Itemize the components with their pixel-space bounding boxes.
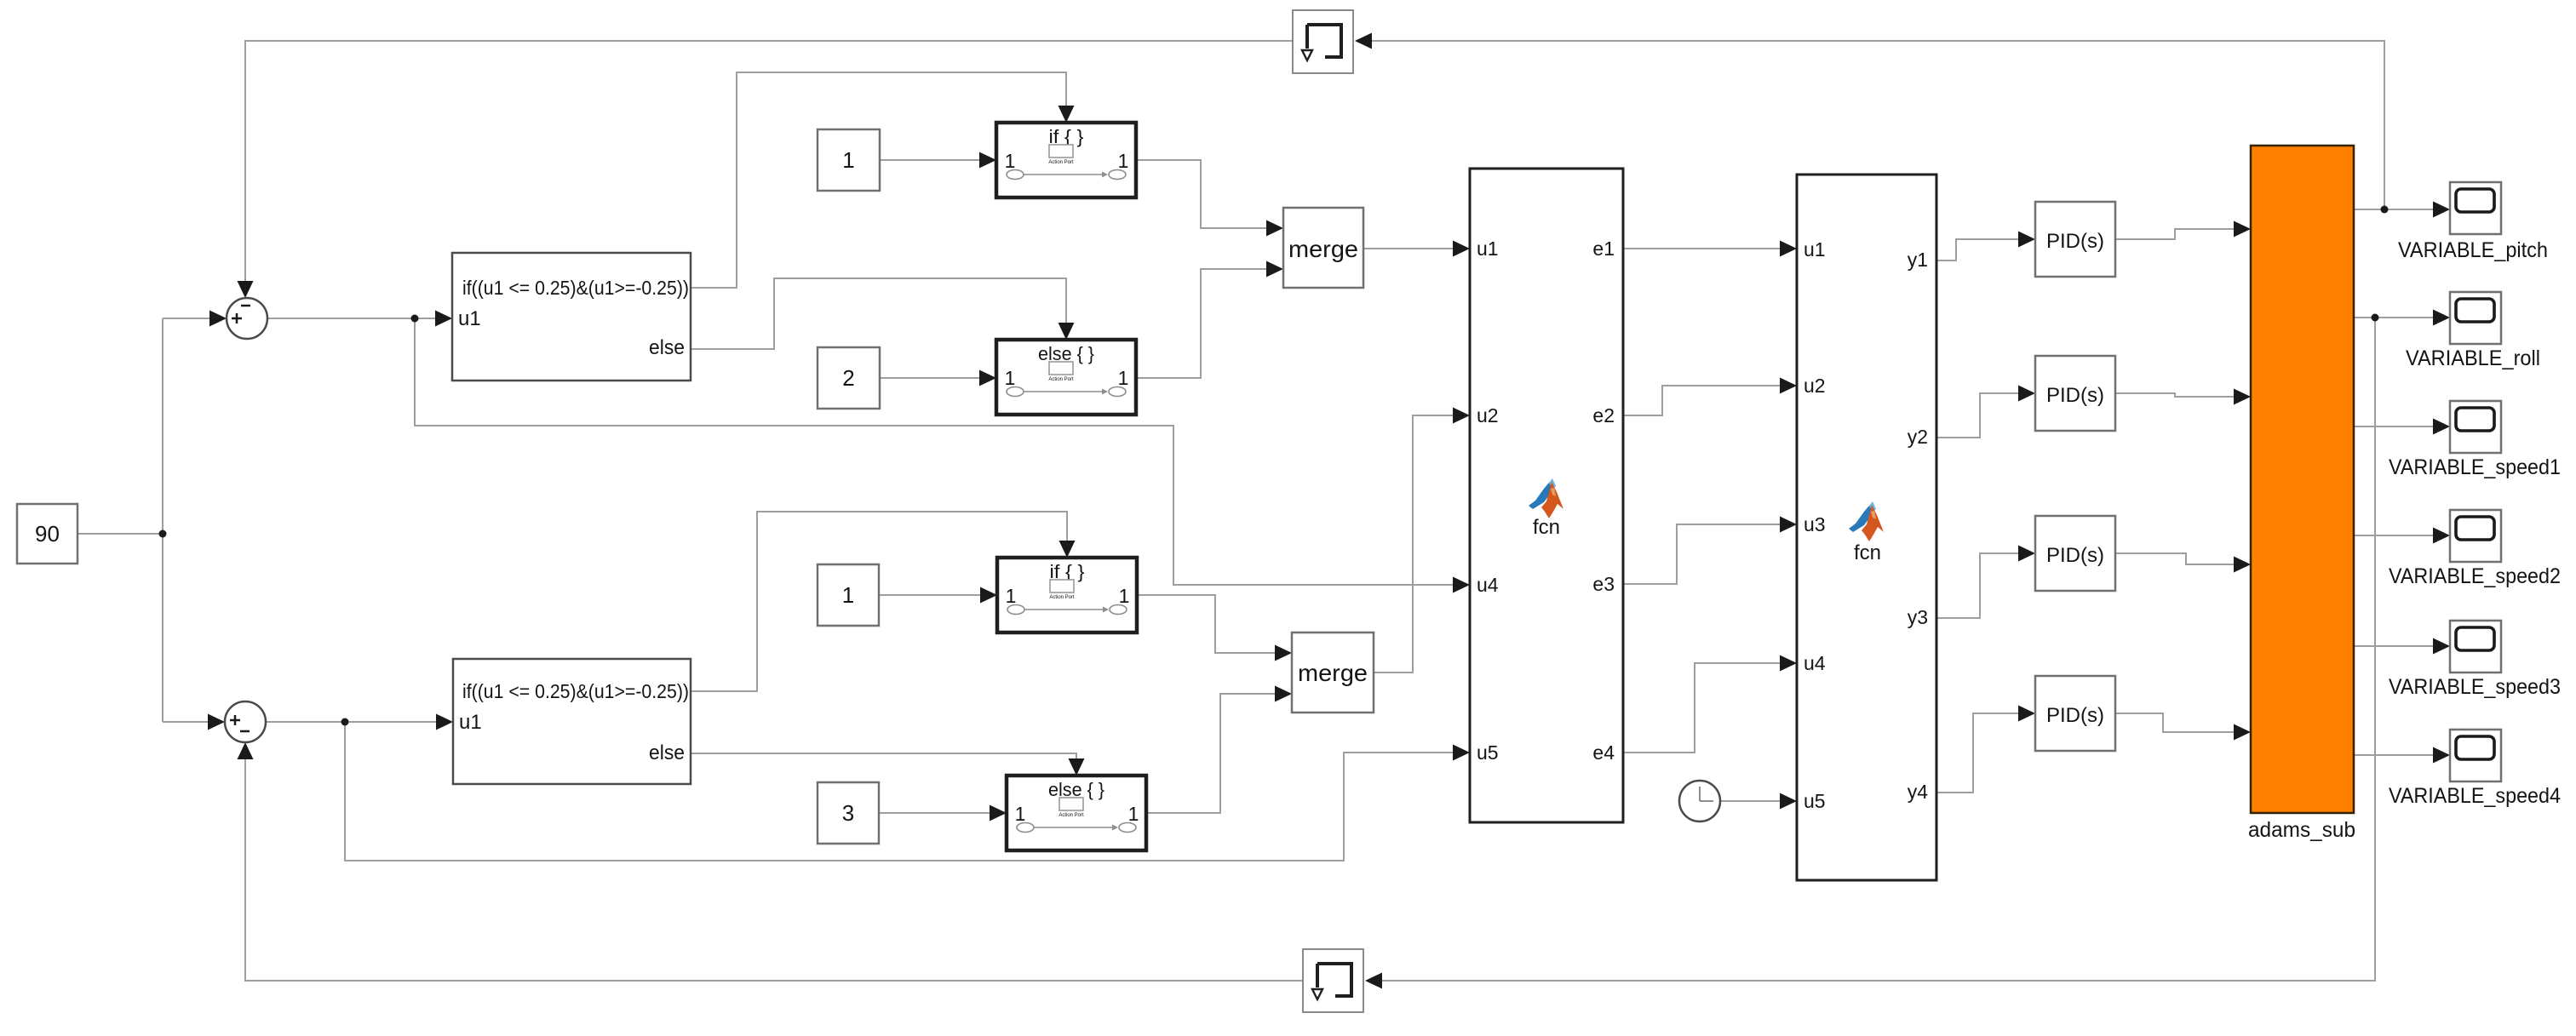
arrow into else{}2 input	[990, 805, 1007, 821]
wire if-block2 "if" output to action port of if{}2	[691, 512, 1067, 691]
arrow into scope VARIABLE_speed4	[2433, 747, 2450, 764]
arrow into if{}2 action port	[1059, 541, 1076, 558]
else{} action subsystem 2	[1007, 776, 1146, 850]
wire else{}1 output to merge1 input 2	[1136, 269, 1271, 378]
arrow into if-block1	[435, 311, 452, 327]
wire PID4 output to adams_sub input 4	[2115, 713, 2239, 732]
wire y1 of fcn2 to PID1	[1936, 239, 2023, 260]
svg-text:else: else	[649, 741, 685, 764]
arrow into fcn2 u3	[1780, 517, 1797, 533]
arrow into scope VARIABLE_speed3	[2433, 638, 2450, 655]
svg-text:u2: u2	[1804, 375, 1826, 397]
MATLAB logo of fcn2	[1849, 501, 1884, 541]
arrow into sum2 bottom	[238, 742, 254, 759]
svg-text:e1: e1	[1592, 238, 1615, 260]
wire e4 of fcn1 to u4 of fcn2	[1623, 663, 1785, 753]
wire adams_sub output 1 to scope VARIABLE_pitch	[2354, 209, 2438, 210]
scope VARIABLE_speed4	[2389, 730, 2561, 808]
svg-text:VARIABLE_speed3: VARIABLE_speed3	[2389, 675, 2561, 699]
merge block 1	[1283, 208, 1363, 288]
wire feedback from pitch junction up to memory1	[1372, 41, 2384, 209]
svg-text:VARIABLE_roll: VARIABLE_roll	[2406, 346, 2540, 370]
arrow into else{}1 input	[979, 370, 996, 386]
MATLAB function block 2 (fcn)	[1797, 175, 1936, 880]
arrow into merge2 input 2	[1275, 686, 1292, 702]
scope VARIABLE_roll	[2406, 292, 2540, 370]
arrow into fcn1 u1	[1453, 241, 1470, 257]
arrow into if{}1 action port	[1059, 106, 1075, 123]
svg-text:VARIABLE_speed1: VARIABLE_speed1	[2389, 455, 2561, 479]
arrow into merge2 input 1	[1275, 645, 1292, 661]
svg-text:u5: u5	[1477, 741, 1499, 764]
sum block 2 (+ left, - bottom)	[225, 701, 266, 742]
arrow into fcn2 u2	[1780, 378, 1797, 394]
wire if-block1 "if" output to action port of if{}1	[691, 72, 1066, 288]
svg-text:else: else	[649, 336, 685, 359]
svg-text:fcn: fcn	[1533, 516, 1560, 539]
svg-text:Action Port: Action Port	[1048, 377, 1074, 382]
arrow into fcn2 u1	[1780, 241, 1797, 257]
svg-text:y2: y2	[1908, 426, 1928, 448]
wire adams_sub output 3 to scope VARIABLE_speed1	[2354, 426, 2438, 427]
wire e1 of fcn1 to u1 of fcn2	[1623, 248, 1785, 249]
adams_sub subsystem (orange)	[2248, 146, 2355, 842]
svg-text:u3: u3	[1804, 513, 1826, 535]
svg-text:1: 1	[1005, 367, 1016, 389]
arrow into scope VARIABLE_pitch	[2433, 202, 2450, 218]
arrow into scope VARIABLE_speed2	[2433, 528, 2450, 544]
PID controller 2	[2035, 356, 2115, 431]
wire PID1 output to adams_sub input 1	[2115, 229, 2239, 239]
arrow into scope VARIABLE_roll	[2433, 310, 2450, 326]
wire e3 of fcn1 to u3 of fcn2	[1623, 524, 1785, 584]
svg-text:1: 1	[1005, 150, 1016, 172]
junction node after sum1	[411, 315, 419, 323]
scope VARIABLE_speed3	[2389, 621, 2561, 699]
wire PID2 output to adams_sub input 2	[2115, 393, 2239, 397]
wire y3 of fcn2 to PID3	[1936, 553, 2023, 618]
svg-text:Action Port: Action Port	[1049, 595, 1075, 600]
svg-text:1: 1	[1119, 585, 1130, 607]
svg-text:if((u1 <= 0.25)&(u1>=-0.25)): if((u1 <= 0.25)&(u1>=-0.25))	[462, 680, 689, 702]
arrow into sum1 left	[209, 311, 227, 327]
junction node on 90 wire	[159, 530, 167, 538]
svg-text:y1: y1	[1908, 249, 1928, 271]
PID controller 1	[2035, 202, 2115, 277]
wire adams_sub output 4 to scope VARIABLE_speed2	[2354, 535, 2438, 536]
arrow into sum2 left	[208, 714, 225, 730]
arrow into if{}1 input	[979, 152, 996, 169]
arrow into merge1 input 1	[1266, 220, 1283, 237]
constant block 90	[17, 504, 77, 564]
memory block 1 (top feedback)	[1293, 10, 1353, 73]
arrow into PID1	[2018, 232, 2035, 248]
svg-text:u1: u1	[1804, 238, 1826, 260]
junction node on pitch wire	[2381, 206, 2389, 214]
memory block 2 (bottom feedback)	[1303, 949, 1363, 1012]
svg-text:e4: e4	[1592, 741, 1615, 764]
arrow into fcn2 u5	[1780, 793, 1797, 810]
wire if{}2 output to merge2 input 1	[1137, 595, 1280, 653]
wire constant 2 to else{}1	[880, 377, 984, 379]
if condition block 1	[452, 253, 691, 381]
svg-text:1: 1	[1015, 803, 1026, 825]
arrow into fcn2 u4	[1780, 655, 1797, 672]
svg-text:u4: u4	[1477, 574, 1499, 596]
svg-text:adams_sub: adams_sub	[2248, 818, 2355, 842]
wire feedback from roll junction down to memory2	[1382, 318, 2375, 981]
wire merge2 output to u2 of fcn1	[1374, 415, 1458, 673]
svg-text:e3: e3	[1592, 573, 1615, 595]
svg-text:VARIABLE_speed4: VARIABLE_speed4	[2389, 784, 2561, 808]
arrow into else{}2 action port	[1069, 758, 1085, 776]
wire if{}1 output to merge1 input 1	[1136, 160, 1271, 228]
MATLAB logo of fcn1	[1529, 478, 1563, 518]
wire sum1 junction down to u4 of fcn1	[415, 318, 1458, 585]
arrow into scope VARIABLE_speed1	[2433, 419, 2450, 435]
wire e2 of fcn1 to u2 of fcn2	[1623, 386, 1785, 415]
wire y2 of fcn2 to PID2	[1936, 393, 2023, 438]
if{} action subsystem 2	[997, 558, 1137, 632]
svg-text:u5: u5	[1804, 790, 1826, 812]
junction node after sum2	[341, 718, 349, 726]
wire sum1 output to if-block1 input with junction	[267, 318, 440, 319]
arrow into memory2 (pointing left)	[1365, 973, 1382, 989]
svg-text:Action Port: Action Port	[1059, 813, 1084, 818]
svg-text:u4: u4	[1804, 652, 1826, 674]
arrow into adams_sub input 3	[2234, 557, 2251, 573]
wire merge1 output to u1 of fcn1	[1363, 248, 1458, 249]
arrow into PID2	[2018, 386, 2035, 402]
if{} action subsystem 1	[996, 123, 1136, 197]
MATLAB function block 1 (fcn)	[1470, 169, 1623, 822]
arrow into adams_sub input 1	[2234, 221, 2251, 238]
merge block 2	[1292, 632, 1374, 713]
clock block	[1679, 781, 1720, 821]
svg-text:y4: y4	[1908, 781, 1929, 803]
wire clock to u5 of fcn2	[1720, 800, 1785, 802]
arrow into if{}2 input	[980, 587, 997, 604]
svg-text:2: 2	[842, 365, 854, 391]
arrow into memory1 (pointing left)	[1355, 33, 1372, 49]
arrow into else{}1 action port	[1059, 323, 1075, 340]
arrow into merge1 input 2	[1266, 261, 1283, 278]
wire memory2 output to sum2 bottom input	[245, 754, 1303, 981]
svg-text:1: 1	[1118, 150, 1129, 172]
PID controller 4	[2035, 676, 2115, 751]
wire adams_sub output 2 to scope VARIABLE_roll	[2354, 317, 2438, 318]
arrow into adams_sub input 2	[2234, 389, 2251, 405]
svg-text:u1: u1	[459, 711, 482, 734]
svg-text:u2: u2	[1477, 404, 1499, 426]
svg-text:y3: y3	[1908, 606, 1928, 628]
svg-text:u1: u1	[1477, 238, 1499, 260]
wire constant 1 (lower) to if{}2	[879, 594, 985, 596]
arrow into adams_sub input 4	[2234, 724, 2251, 741]
svg-text:fcn: fcn	[1854, 541, 1881, 564]
svg-text:PID(s): PID(s)	[2046, 384, 2104, 407]
else{} action subsystem 1	[996, 340, 1136, 415]
arrow into PID3	[2018, 546, 2035, 562]
arrow into fcn1 u4	[1453, 577, 1470, 593]
constant block 1 (upper)	[818, 129, 880, 191]
svg-text:PID(s): PID(s)	[2046, 704, 2104, 727]
svg-text:VARIABLE_pitch: VARIABLE_pitch	[2398, 238, 2548, 262]
svg-text:90: 90	[35, 521, 60, 547]
svg-text:PID(s): PID(s)	[2046, 230, 2104, 253]
arrow into fcn1 u5	[1453, 745, 1470, 761]
constant block 2	[818, 347, 880, 409]
if condition block 2	[453, 659, 691, 784]
constant block 3	[818, 782, 879, 844]
svg-text:3: 3	[842, 800, 854, 826]
svg-text:1: 1	[1128, 803, 1139, 825]
scope VARIABLE_speed2	[2389, 510, 2561, 588]
svg-text:1: 1	[1118, 367, 1129, 389]
wire if-block1 "else" output to action port of else{}1	[691, 278, 1066, 349]
svg-text:u1: u1	[458, 307, 481, 330]
sum block 1 (+ left, - top)	[227, 298, 267, 339]
svg-text:1: 1	[842, 582, 854, 608]
svg-text:VARIABLE_speed2: VARIABLE_speed2	[2389, 564, 2561, 588]
arrow into fcn1 u2	[1453, 408, 1470, 424]
svg-text:1: 1	[1006, 585, 1017, 607]
PID controller 3	[2035, 516, 2115, 591]
wire from constant 90 to junction and to both sum blocks	[77, 318, 215, 722]
wire y4 of fcn2 to PID4	[1936, 713, 2023, 793]
svg-text:merge: merge	[1298, 660, 1368, 686]
svg-text:merge: merge	[1288, 236, 1358, 262]
junction node on roll wire	[2372, 314, 2379, 322]
wire adams_sub output 5 to scope VARIABLE_speed3	[2354, 645, 2438, 647]
wire PID3 output to adams_sub input 3	[2115, 553, 2239, 564]
wire sum2 output to if-block2 input	[266, 721, 441, 723]
arrow into PID4	[2018, 706, 2035, 722]
wire constant 3 to else{}2	[879, 812, 995, 814]
svg-text:if((u1 <= 0.25)&(u1>=-0.25)): if((u1 <= 0.25)&(u1>=-0.25))	[462, 277, 689, 299]
svg-text:PID(s): PID(s)	[2046, 544, 2104, 567]
wire sum2 junction down to u5 of fcn1	[345, 722, 1458, 861]
wire adams_sub output 6 to scope VARIABLE_speed4	[2354, 754, 2438, 756]
wire else{}2 output to merge2 input 2	[1146, 694, 1280, 813]
constant block 1 (lower)	[818, 564, 879, 626]
svg-text:Action Port: Action Port	[1048, 160, 1074, 165]
svg-text:1: 1	[842, 147, 854, 173]
arrow into sum1 top	[238, 281, 254, 298]
svg-text:e2: e2	[1592, 404, 1615, 426]
scope VARIABLE_speed1	[2389, 401, 2561, 479]
arrow into if-block2	[436, 714, 453, 730]
wire if-block2 "else" output to action port of else{}2	[691, 753, 1076, 764]
wire memory1 output to sum1 top input	[245, 41, 1293, 286]
scope VARIABLE_pitch	[2398, 182, 2548, 262]
wire constant 1 (upper) to if{}1	[880, 159, 984, 161]
